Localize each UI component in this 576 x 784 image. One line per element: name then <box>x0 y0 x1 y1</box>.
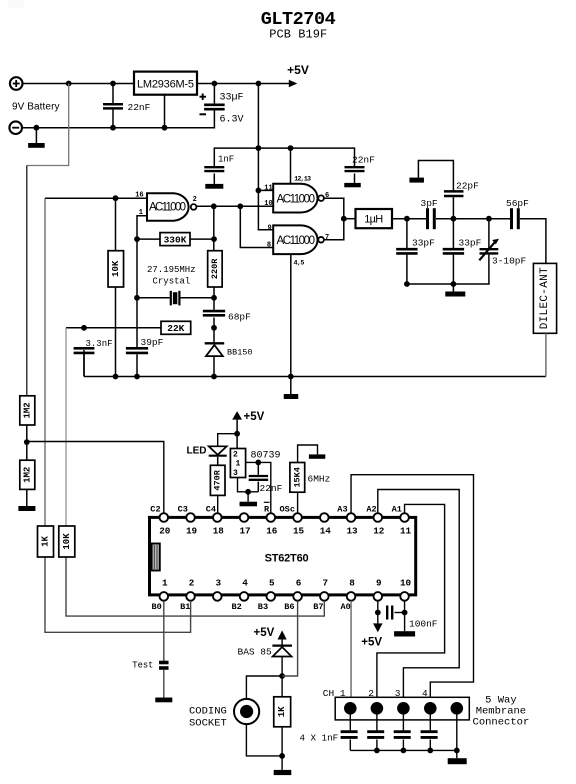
mcu U3 body ST62T60 <box>150 517 416 595</box>
wire 470R to pin C4 <box>217 495 219 513</box>
svg-text:22K: 22K <box>167 323 184 334</box>
wire 330K right <box>190 238 214 240</box>
wire 137 column <box>136 239 138 347</box>
node 0V regulator gnd junction <box>162 125 168 131</box>
svg-text:BB150: BB150 <box>227 348 253 358</box>
node bus 4 <box>427 748 433 754</box>
node gate1 output junction b <box>237 203 243 209</box>
capacitor 1nF ch3 <box>394 730 411 733</box>
svg-text:14: 14 <box>320 526 332 537</box>
svg-text:1µH: 1µH <box>364 214 383 226</box>
wire socket to ground node <box>246 724 282 756</box>
svg-text:4: 4 <box>242 578 248 589</box>
svg-text:15: 15 <box>293 526 305 537</box>
svg-text:PCB B19F: PCB B19F <box>269 28 327 42</box>
node reset ground junction <box>245 489 251 495</box>
node pin9 junction <box>375 610 381 616</box>
resonator 6MHz bar <box>309 454 325 458</box>
resistor R 1M2 upper <box>20 396 35 425</box>
svg-text:3: 3 <box>233 469 238 478</box>
capacitor 39pF <box>126 347 148 350</box>
wire 1M2 to pin C2 <box>27 442 164 514</box>
node battery+ rail junction <box>66 81 72 87</box>
wire A1 route <box>377 504 445 702</box>
resistor R 1K coding <box>274 697 291 727</box>
capacitor trimmer 3-10pF <box>480 248 499 250</box>
node 3.3nF top junction <box>81 325 87 331</box>
wire 22K column to 10K <box>65 328 67 526</box>
svg-text:1K: 1K <box>277 706 287 717</box>
ground 1M2 <box>18 506 35 511</box>
wire gate1 out to 220R <box>213 206 215 250</box>
ground battery <box>28 143 45 148</box>
svg-text:22nF: 22nF <box>128 102 151 113</box>
wire 33pF first top <box>406 219 408 249</box>
ground coding <box>274 770 292 775</box>
svg-text:6MHz: 6MHz <box>308 474 331 485</box>
wire 22pF top L <box>418 161 453 192</box>
svg-text:22nF: 22nF <box>260 483 283 494</box>
wire node to 1K <box>281 676 283 697</box>
wire 22K left <box>66 327 161 329</box>
resistor 220R <box>208 251 223 287</box>
svg-text:12,13: 12,13 <box>294 176 311 184</box>
wire regulator gnd <box>164 95 166 128</box>
wire to inductor <box>344 218 356 220</box>
node output join <box>341 216 347 222</box>
svg-text:15K4: 15K4 <box>292 467 302 487</box>
svg-text:BAS 85: BAS 85 <box>238 647 273 658</box>
svg-text:16: 16 <box>266 526 278 537</box>
svg-text:1K: 1K <box>41 536 51 547</box>
svg-text:6: 6 <box>296 578 302 589</box>
svg-text:B3: B3 <box>258 602 268 612</box>
svg-text:22pF: 22pF <box>456 181 479 192</box>
pin 13 top circle <box>347 513 356 522</box>
svg-text:+5V: +5V <box>254 627 275 639</box>
node rail gate ground junction <box>288 374 294 380</box>
node coding ground junction <box>279 753 285 759</box>
svg-text:CODING: CODING <box>189 706 227 718</box>
wire pin9 feed <box>258 190 273 229</box>
pin 5 bottom circle <box>267 592 276 601</box>
wire pins 12 13 to gate2 <box>290 148 292 184</box>
node +5V feed junction <box>256 81 262 87</box>
power +5V arrow bas85 <box>278 630 287 639</box>
wire 56pF to antenna <box>520 219 546 264</box>
capacitor test <box>159 661 169 665</box>
node rail varicap junction <box>211 374 217 380</box>
battery negative terminal <box>9 121 22 134</box>
membrane contact 3 <box>397 702 410 715</box>
wire rf bottom rail <box>407 283 490 285</box>
svg-text:100nF: 100nF <box>409 619 438 630</box>
svg-text:470R: 470R <box>213 469 223 490</box>
connector coding socket <box>234 699 259 724</box>
capacitor 100nF <box>386 606 388 620</box>
svg-text:+5V: +5V <box>287 63 309 77</box>
wire node to 80739 <box>236 434 238 449</box>
crystal X1 27.195MHz <box>170 291 172 306</box>
wire 1K to B1 <box>45 557 191 632</box>
wire gate3 to ground rail <box>290 254 292 376</box>
svg-text:2: 2 <box>193 196 197 204</box>
ground reset <box>240 502 257 507</box>
capacitor 3pF <box>426 208 429 229</box>
wire pin11 into gate2 <box>258 189 273 191</box>
capacitor 1nF ch2 <box>367 730 384 733</box>
node rf rail second <box>451 281 457 287</box>
pin 8 bottom circle <box>347 592 356 601</box>
svg-text:ST62T60: ST62T60 <box>265 553 309 565</box>
svg-text:1: 1 <box>162 578 168 589</box>
svg-text:LM2936M-5: LM2936M-5 <box>137 78 194 90</box>
wire pin9 down <box>377 601 379 613</box>
resistor R 1M2 lower <box>20 460 35 489</box>
svg-text:7: 7 <box>323 578 329 589</box>
wire crystal right <box>181 297 215 299</box>
wire membrane 1 to cap <box>349 715 351 731</box>
svg-text:+5V: +5V <box>244 411 265 423</box>
wire A3 route <box>351 475 473 702</box>
wire cap 3 to bus <box>402 740 404 751</box>
wire +5V vertical feed <box>257 84 259 191</box>
wire rail ground stub <box>290 377 292 395</box>
svg-text:4,5: 4,5 <box>294 260 305 268</box>
antenna DILEC-ANT <box>533 263 556 333</box>
ground pin10 <box>394 631 415 636</box>
svg-text:11: 11 <box>400 526 412 537</box>
node gate2 pins 12 13 junction <box>288 145 294 151</box>
wire battery+ to regulator <box>23 83 135 85</box>
wire 1nF bottom <box>213 174 215 184</box>
pin 7 bottom circle <box>320 592 329 601</box>
ground oscillator rail <box>284 394 299 399</box>
battery positive terminal <box>10 77 23 90</box>
pin 9 bottom circle <box>374 592 383 601</box>
membrane contact 2 <box>371 702 384 715</box>
wire 22nF reset bottom <box>257 482 259 492</box>
wire 22nF bottom <box>112 110 114 128</box>
svg-text:R: R <box>264 505 270 515</box>
svg-text:17: 17 <box>239 526 250 537</box>
wire battery- 0V rail <box>22 110 214 128</box>
wire ground stub <box>35 128 37 143</box>
svg-text:1M2: 1M2 <box>22 467 32 483</box>
pin 16 top circle <box>267 513 276 522</box>
wire cap 1 to bus <box>349 740 351 751</box>
svg-text:20: 20 <box>159 526 171 537</box>
node coding junction <box>279 673 285 679</box>
svg-text:1M2: 1M2 <box>22 402 32 418</box>
wire node to LED <box>218 434 237 447</box>
svg-text:68pF: 68pF <box>228 312 251 323</box>
ground rf rail <box>445 292 465 297</box>
pin 12 top circle <box>374 513 383 522</box>
node reset 22nF junction <box>255 460 261 466</box>
wire gate1 pin1 input <box>137 216 147 239</box>
svg-text:DILEC-ANT: DILEC-ANT <box>539 267 551 329</box>
wire 1K coding bottom <box>281 727 283 756</box>
svg-text:C3: C3 <box>178 505 188 515</box>
wire 1M2 junction <box>26 425 28 460</box>
node led 80739 junction <box>234 431 240 437</box>
svg-text:CH 1: CH 1 <box>323 688 346 699</box>
svg-text:A3: A3 <box>337 505 347 515</box>
svg-text:5: 5 <box>269 578 275 589</box>
svg-text:330K: 330K <box>164 235 187 246</box>
membrane contact 5 <box>451 702 464 715</box>
membrane contact 4 <box>424 702 437 715</box>
capacitor 22nF decoupling <box>345 166 365 168</box>
wire rf ground stub <box>452 284 454 292</box>
wire +5V to node <box>236 420 238 434</box>
svg-text:B2: B2 <box>232 602 242 612</box>
wire 15K4 top to resonator <box>298 445 318 463</box>
svg-text:80739: 80739 <box>251 450 281 461</box>
diode LED <box>209 446 227 455</box>
diode D2 BAS 85 <box>281 640 283 646</box>
svg-text:A0: A0 <box>341 602 351 612</box>
wire pin10 down <box>404 601 406 613</box>
wire 22nF decoupling bottom <box>354 174 356 183</box>
node crystal right junction <box>211 295 217 301</box>
pin 20 top circle <box>160 513 169 522</box>
svg-text:A2: A2 <box>366 505 376 515</box>
svg-text:27.195MHz: 27.195MHz <box>147 265 196 275</box>
wire 330K left <box>137 238 160 240</box>
wire 22nF top <box>112 84 114 104</box>
svg-text:2: 2 <box>368 688 374 699</box>
svg-text:LED: LED <box>187 446 207 457</box>
wire test cap to ground <box>163 670 165 698</box>
wire 22pF bottom <box>452 197 454 219</box>
wire gate1 pin16 input <box>45 197 147 199</box>
power +5V arrow mcu <box>232 411 242 420</box>
node 0V 22nF junction <box>110 125 116 131</box>
node trimmer junction <box>486 216 492 222</box>
svg-text:7: 7 <box>325 234 329 242</box>
node 1M2 junction <box>24 439 30 445</box>
wire regulator output <box>197 83 290 85</box>
svg-text:B0: B0 <box>152 602 162 612</box>
scan artifact mark top-left <box>8 0 24 8</box>
reset ic 80739 pins 2 1 3 <box>230 449 245 478</box>
wire node to socket <box>246 676 282 699</box>
wire membrane 4 to cap <box>429 715 431 731</box>
svg-text:11: 11 <box>264 184 272 192</box>
pin 15 top circle <box>293 513 302 522</box>
node gate1 output junction a <box>211 203 217 209</box>
node 22K right junction <box>211 325 217 331</box>
svg-text:9: 9 <box>376 578 382 589</box>
wire membrane ground bus <box>350 749 457 751</box>
svg-text:13: 13 <box>346 526 358 537</box>
svg-text:4: 4 <box>422 688 428 699</box>
wire B6 to node <box>282 601 298 676</box>
svg-text:OSc: OSc <box>280 505 295 515</box>
node rail 10K junction <box>113 374 119 380</box>
capacitor 33pF first <box>396 248 417 251</box>
svg-text:B6: B6 <box>284 602 294 612</box>
svg-text:220R: 220R <box>210 258 220 279</box>
wire pin10 ground stub <box>404 613 406 632</box>
wire 22nF reset top <box>257 462 259 474</box>
wire reset ground stub <box>247 492 249 502</box>
node 22nF input cap junction <box>110 81 116 87</box>
regulator U2 LM2936M-5 <box>134 72 197 95</box>
node gate2 pin11 junction <box>256 188 262 194</box>
wire crystal left <box>137 297 170 299</box>
op-amp U1B nand gate AC11000 <box>273 184 317 213</box>
wire 33uF top <box>213 84 215 104</box>
svg-text:3: 3 <box>216 578 222 589</box>
svg-text:SOCKET: SOCKET <box>189 718 227 730</box>
svg-text:3.3nF: 3.3nF <box>86 339 113 349</box>
wire 10K to B7 <box>66 557 324 616</box>
pin 10 bottom circle <box>400 592 409 601</box>
diode D1 BB150 varicap <box>205 342 225 344</box>
svg-text:1: 1 <box>139 209 143 217</box>
node bus 3 <box>401 748 407 754</box>
ground test <box>155 698 172 703</box>
wire 100nF right <box>395 612 405 614</box>
svg-text:A1: A1 <box>392 505 402 515</box>
resistor R 15K4 <box>290 463 305 493</box>
wire battery to 1M2 chain lower <box>26 166 28 396</box>
ground membrane <box>448 758 467 764</box>
wire 3pF to node <box>436 218 454 220</box>
resistor R 10K port <box>59 526 75 557</box>
capacitor 1nF <box>204 166 224 168</box>
svg-text:10K: 10K <box>111 260 121 277</box>
wire antenna to ground rail <box>545 333 547 376</box>
wire 33pF first bottom <box>406 255 408 284</box>
node pin10 junction <box>402 610 408 616</box>
svg-text:12: 12 <box>373 526 385 537</box>
svg-text:8: 8 <box>349 578 355 589</box>
pin 3 bottom circle <box>213 592 222 601</box>
resistor 22K <box>161 321 191 334</box>
svg-text:4 X 1nF: 4 X 1nF <box>300 733 339 744</box>
svg-text:18: 18 <box>213 526 225 537</box>
node 33pF first junction <box>404 216 410 222</box>
svg-text:Crystal: Crystal <box>153 277 191 287</box>
op-amp U1A nand gate AC11000 <box>147 193 189 221</box>
node 330K right junction <box>211 236 217 242</box>
wire gate pin16 column to 1K <box>44 198 46 526</box>
wire 33pF second top <box>452 219 454 249</box>
wire varicap bottom <box>213 356 215 376</box>
mcu notch mark <box>152 544 160 571</box>
resistor R 1K port <box>38 526 54 557</box>
pin 4 bottom circle <box>240 592 249 601</box>
node rf rail first <box>404 281 410 287</box>
wire 39pF bottom <box>136 354 138 376</box>
capacitor 22nF reset <box>249 475 268 477</box>
wire 10K bottom lead <box>115 287 117 377</box>
wire trimmer bottom <box>488 255 490 284</box>
wire 80739 pin1 to reset pin <box>246 462 271 513</box>
wire 80739 pin3 to ground <box>238 478 259 492</box>
svg-text:9: 9 <box>268 224 272 232</box>
svg-text:3pF: 3pF <box>421 198 438 209</box>
svg-text:C4: C4 <box>206 505 216 515</box>
svg-text:33pF: 33pF <box>412 237 435 248</box>
svg-text:56pF: 56pF <box>506 198 529 209</box>
node 33uF junction <box>212 81 218 87</box>
wire 68pF to 22K node <box>213 318 215 328</box>
pin 19 top circle <box>186 513 195 522</box>
svg-text:B1: B1 <box>180 602 190 612</box>
wire A0 to membrane 1 <box>350 601 352 702</box>
node rail 39pF junction <box>134 374 140 380</box>
op-amp U1C nand gate AC11000 <box>273 225 317 254</box>
label minus 33uF <box>200 113 207 115</box>
wire membrane 2 to cap <box>376 715 378 731</box>
membrane contact 1 <box>344 702 357 715</box>
resistor 330K <box>160 233 190 246</box>
wire B0 to test cap <box>163 601 165 661</box>
wire 15K4 to pin OSc <box>297 492 299 513</box>
wire bas85 to node <box>281 657 283 676</box>
wire cap 2 to bus <box>376 740 378 751</box>
svg-text:Test: Test <box>132 661 153 671</box>
pin 18 top circle <box>213 513 222 522</box>
wire A2 route <box>378 490 459 703</box>
svg-text:3-10pF: 3-10pF <box>492 256 527 267</box>
wire membrane 3 to cap <box>402 715 404 731</box>
svg-text:1: 1 <box>236 459 241 468</box>
capacitor 1nF ch1 <box>341 730 358 733</box>
node bus 5 <box>454 748 460 754</box>
svg-text:33pF: 33pF <box>459 237 482 248</box>
svg-text:8: 8 <box>267 242 271 250</box>
wire gate outputs join <box>324 198 344 240</box>
node 22pF 33pF junction <box>451 216 457 222</box>
capacitor 22nF battery input <box>103 103 123 106</box>
wire inductor to 3pF <box>392 218 426 220</box>
svg-text:AC11000: AC11000 <box>277 193 316 205</box>
wire membrane 5 down <box>456 715 458 759</box>
wire 10K top lead <box>115 198 117 251</box>
capacitor 56pF <box>510 208 513 229</box>
capacitor C 33uF 6.3V <box>204 104 225 107</box>
svg-text:1nF: 1nF <box>218 155 234 165</box>
pin 6 bottom circle <box>293 592 302 601</box>
wire battery to 1M2 chain upper <box>27 84 69 166</box>
svg-text:2: 2 <box>189 578 195 589</box>
node 10K top junction <box>113 195 119 201</box>
ground 1nF <box>205 184 223 189</box>
svg-text:9V Battery: 9V Battery <box>12 102 60 113</box>
wire 33pF second bottom <box>452 255 454 284</box>
node crystal left junction <box>134 295 140 301</box>
ground 22nF decoupling <box>344 183 361 187</box>
svg-text:33µF: 33µF <box>220 93 244 104</box>
capacitor 33pF second <box>443 248 464 251</box>
svg-text:39pF: 39pF <box>141 337 164 348</box>
wire 220R to 68pF <box>213 287 215 310</box>
power +5V arrow down pin9 <box>373 623 383 632</box>
wire cap 4 to bus <box>429 740 431 751</box>
wire varicap top <box>213 328 215 342</box>
svg-text:3: 3 <box>395 688 401 699</box>
svg-text:10: 10 <box>400 578 412 589</box>
svg-text:6.3V: 6.3V <box>220 115 244 126</box>
wire LED to 470R <box>217 457 219 466</box>
svg-text:10: 10 <box>264 200 272 208</box>
